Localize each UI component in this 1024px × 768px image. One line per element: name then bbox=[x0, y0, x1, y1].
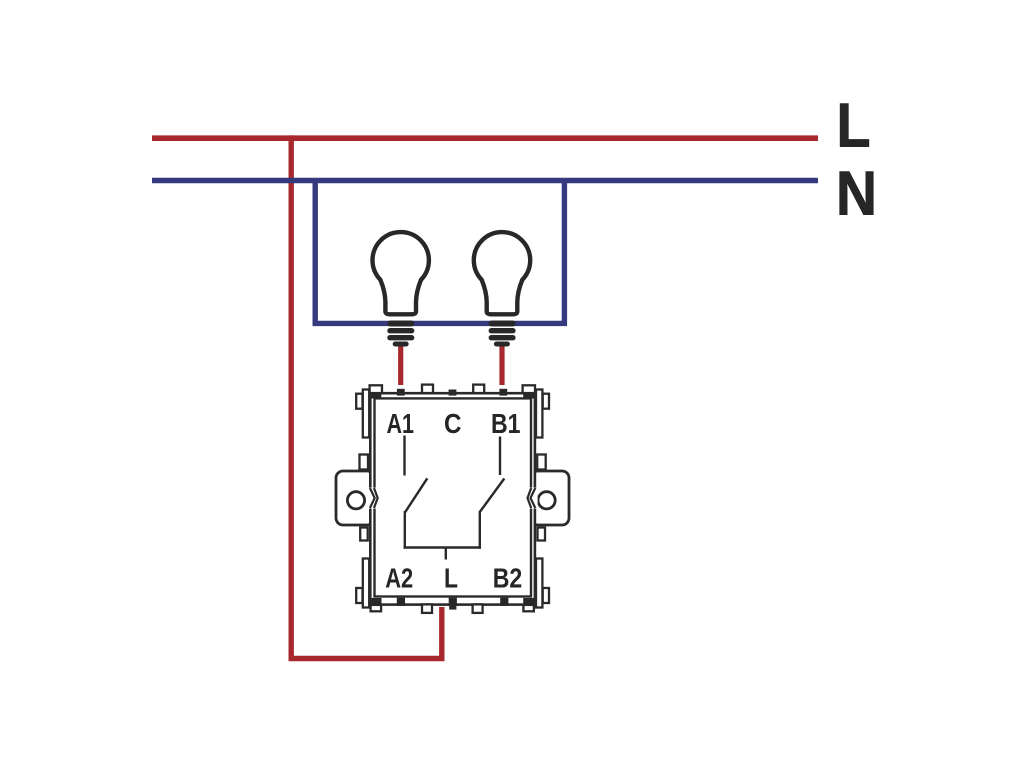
wire N line (neutral, blue horizontal) bbox=[152, 178, 818, 184]
frame grip notch right (erase + chevrons) bbox=[528, 488, 538, 509]
switch S2 (pole B) bbox=[480, 437, 505, 549]
frame bottom tab corner-right bbox=[523, 605, 534, 611]
frame mid tab below left ear bbox=[360, 528, 368, 541]
wire neutral loop to lamps (blue: down, right, up) bbox=[315, 178, 564, 323]
node L label bbox=[837, 90, 871, 160]
frame corner lug bottom-left (filled) bbox=[371, 598, 382, 606]
terminal L (filled, in slot with stub) bbox=[449, 598, 457, 606]
frame corner lug top-right (filled) bbox=[523, 392, 534, 399]
wire live drop from L to switch (red: down, right, up to L terminal) bbox=[291, 135, 442, 658]
frame far tab top-left bbox=[356, 394, 362, 409]
frame far tab bottom-right bbox=[543, 588, 549, 603]
svg-text:B2: B2 bbox=[493, 562, 523, 593]
frame inner plate rectangle bbox=[375, 398, 532, 596]
label A2 bbox=[385, 562, 413, 593]
svg-text:L: L bbox=[837, 90, 871, 160]
svg-text:N: N bbox=[836, 159, 877, 229]
frame far tab bottom-left bbox=[356, 588, 362, 603]
label L bbox=[444, 562, 458, 593]
wire lamp E2 to B1 terminal (red) bbox=[499, 345, 504, 385]
terminal C (filled) bbox=[449, 390, 457, 396]
svg-text:B1: B1 bbox=[491, 408, 521, 439]
svg-text:L: L bbox=[444, 562, 458, 593]
frame far tab top-right bbox=[543, 394, 549, 409]
frame top tab mid-right bbox=[473, 385, 484, 395]
terminal B1 (filled) bbox=[499, 389, 507, 396]
frame mid tab above left ear bbox=[360, 455, 369, 470]
lamp E1 (light bulb) bbox=[373, 232, 429, 346]
frame mid tab below right ear bbox=[538, 528, 546, 541]
svg-text:A2: A2 bbox=[385, 562, 413, 593]
label B1 bbox=[491, 408, 521, 439]
lamp E2 (light bulb) bbox=[474, 232, 530, 346]
frame top and bottom tabs (white, outlined) bbox=[370, 385, 535, 395]
terminal A1 (filled) bbox=[397, 389, 405, 396]
label B2 bbox=[493, 562, 523, 593]
wire lamp E1 to A1 terminal (red) bbox=[398, 345, 403, 385]
frame tall tab top-left bbox=[363, 390, 369, 438]
frame grip notch left (erase + chevrons) bbox=[368, 488, 378, 509]
switch S1 (pole A) bbox=[405, 436, 428, 549]
frame tall tab top-right bbox=[536, 390, 542, 438]
frame corner lug top-left (filled) bbox=[371, 392, 382, 399]
frame bottom tab mid-right bbox=[473, 604, 483, 613]
frame tall tab bottom-right bbox=[536, 559, 542, 608]
frame mid tab above right ear bbox=[537, 455, 546, 470]
label C bbox=[444, 408, 462, 439]
frame top tab corner-left bbox=[370, 385, 382, 394]
mounting ear left bbox=[336, 471, 374, 525]
frame tall tab bottom-left bbox=[363, 559, 369, 608]
frame outer rail rectangle bbox=[370, 393, 535, 604]
svg-text:A1: A1 bbox=[386, 408, 414, 439]
label A1 bbox=[386, 408, 414, 439]
switch box frame ring bbox=[370, 393, 535, 604]
svg-text:C: C bbox=[444, 408, 462, 439]
frame bottom tab corner-left bbox=[371, 605, 382, 611]
terminal B2 (filled, in slot) bbox=[500, 598, 508, 606]
frame bottom tabs (white, outlined) bbox=[371, 604, 534, 613]
node N label bbox=[836, 159, 877, 229]
frame side tabs (white, outlined) bbox=[356, 390, 549, 608]
terminal A2 (filled, in slot) bbox=[397, 598, 405, 606]
frame top tab corner-right bbox=[523, 385, 535, 394]
wire common link to L terminal (inside switch) bbox=[404, 548, 481, 560]
frame top tab mid-left bbox=[422, 385, 433, 395]
frame bottom tab mid-left bbox=[422, 604, 432, 613]
frame corner lug bottom-right (filled) bbox=[523, 598, 534, 606]
mounting ear right bbox=[531, 471, 569, 525]
wire L line (live, red horizontal) bbox=[152, 135, 818, 141]
